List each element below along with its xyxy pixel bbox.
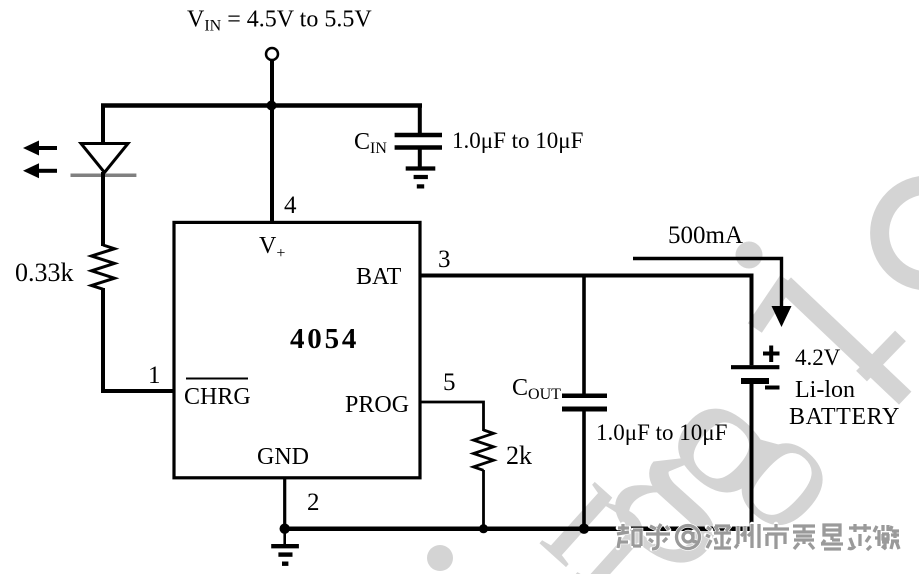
svg-text:CIN: CIN — [354, 129, 387, 157]
watermark i stem — [748, 275, 795, 333]
junction dot 2k — [479, 524, 488, 533]
svg-text:500mA: 500mA — [668, 222, 743, 249]
svg-text:1.0μF to 10μF: 1.0μF to 10μF — [452, 128, 583, 153]
wire terminal to rail — [270, 61, 274, 106]
resistor R1 0.33k zigzag — [92, 245, 115, 289]
wire CIN to ground — [418, 149, 422, 167]
watermark stem serif — [856, 331, 906, 382]
watermark letter g — [604, 321, 849, 574]
pin 2 wire — [283, 478, 286, 529]
LED light arrow lower — [23, 163, 57, 178]
bottom ground rail — [285, 526, 752, 531]
LED cathode bar — [71, 173, 137, 177]
watermark ring — [880, 185, 919, 281]
svg-text:V+: V+ — [259, 233, 285, 262]
capacitor CIN bottom plate — [395, 145, 442, 150]
svg-text:CHRG: CHRG — [184, 384, 251, 410]
wire LED to resistor — [101, 172, 105, 246]
capacitor CIN top plate — [395, 133, 442, 138]
svg-text:COUT: COUT — [512, 375, 561, 403]
svg-text:BAT: BAT — [356, 264, 402, 290]
svg-text:4.2V: 4.2V — [795, 345, 841, 370]
capacitor COUT bottom plate — [562, 407, 607, 412]
wire resistor to pin1 corner — [103, 288, 175, 391]
junction dot COUT — [579, 524, 589, 534]
wire battery to rail — [750, 384, 754, 530]
500mA current arrow — [633, 259, 782, 311]
watermark letter n — [516, 429, 703, 574]
watermark i tittle — [735, 242, 762, 269]
node junction top — [267, 101, 277, 111]
capacitor COUT top plate — [562, 393, 607, 398]
svg-text:3: 3 — [438, 246, 451, 273]
svg-text:BATTERY: BATTERY — [789, 404, 900, 430]
svg-text:1.0μF to 10μF: 1.0μF to 10μF — [596, 420, 727, 445]
ground symbol CIN — [406, 169, 436, 187]
svg-text:Li-lon: Li-lon — [795, 377, 855, 403]
BAT wire pin 3 — [420, 274, 754, 278]
pin 5 wire — [420, 402, 484, 431]
wire BAT corner down to battery — [750, 274, 754, 366]
resistor R2 2k zigzag — [474, 430, 494, 470]
pin 4 wire — [270, 105, 274, 222]
svg-text:5: 5 — [443, 369, 456, 396]
battery BT1 top plate — [731, 365, 779, 369]
svg-text:VIN = 4.5V to 5.5V: VIN = 4.5V to 5.5V — [187, 7, 372, 35]
svg-text:2k: 2k — [506, 441, 532, 470]
watermark long stem — [779, 277, 912, 404]
svg-text:1: 1 — [148, 362, 161, 389]
svg-text:PROG: PROG — [345, 392, 409, 418]
top rail wire — [101, 103, 422, 108]
LED light arrow upper — [23, 141, 57, 156]
watermark dot — [427, 545, 453, 571]
watermark letter o — [706, 379, 883, 562]
battery minus — [765, 386, 780, 390]
capacitor CIN drop wire — [418, 104, 422, 135]
svg-text:GND: GND — [257, 444, 309, 470]
IC U1 box — [174, 222, 420, 477]
wire COUT to rail — [582, 412, 586, 529]
svg-text:2: 2 — [307, 489, 320, 516]
svg-text:4: 4 — [284, 192, 297, 219]
capacitor COUT drop wire — [582, 276, 586, 395]
wire rail to LED — [101, 104, 105, 146]
svg-text:4054: 4054 — [290, 323, 359, 355]
battery plus — [763, 346, 780, 363]
CHRG overline — [186, 378, 248, 380]
battery BT1 bottom plate — [741, 378, 769, 384]
input terminal — [266, 48, 278, 60]
LED D1 triangle — [81, 144, 128, 173]
wire 2k to rail — [482, 470, 485, 529]
junction dot pin2 — [280, 524, 290, 534]
svg-text:0.33k: 0.33k — [15, 258, 74, 287]
ground symbol main — [283, 529, 286, 545]
